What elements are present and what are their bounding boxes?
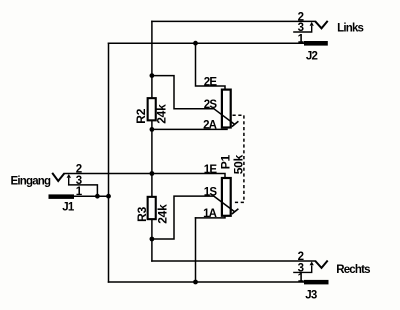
J2 tip contact V [315, 21, 327, 28]
P1 section1 wiper arrow [214, 196, 235, 211]
wire 1S branch [152, 196, 214, 239]
svg-text:2: 2 [298, 251, 304, 263]
wire top ground line [109, 42, 305, 44]
J3 switch arrow [293, 266, 312, 273]
J1 sleeve bar [49, 194, 75, 199]
J2 sleeve bar [304, 41, 328, 46]
J1 switch arrow [68, 178, 70, 185]
node R3/1S junction [150, 237, 155, 242]
connector J3 [293, 251, 370, 301]
P1 gang coupling dashed line [233, 115, 244, 202]
svg-text:J2: J2 [306, 50, 318, 62]
wire bottom ground line [109, 281, 305, 283]
J3 tip contact V [315, 261, 327, 268]
svg-text:24k: 24k [155, 104, 169, 124]
junction dots [95, 41, 198, 285]
wire J1 pin3 to ground [69, 185, 98, 196]
svg-text:2S: 2S [204, 99, 218, 111]
svg-text:R3: R3 [135, 206, 149, 221]
wire J1 pin1 [74, 195, 109, 197]
svg-text:3: 3 [76, 175, 82, 187]
potentiometer P1 section 2 [203, 76, 238, 131]
resistor R3 [135, 197, 170, 224]
J3 sleeve bar [304, 280, 329, 285]
node 2A junction [150, 127, 155, 132]
svg-text:1S: 1S [204, 186, 218, 198]
resistor R2 [134, 98, 169, 124]
svg-text:J1: J1 [62, 202, 75, 214]
svg-text:24k: 24k [156, 204, 170, 224]
node 2E ground junction [193, 41, 198, 46]
svg-text:2E: 2E [204, 76, 218, 88]
wire 2S branch [152, 76, 214, 109]
node J1 pin3 junction [95, 194, 100, 199]
svg-text:1E: 1E [204, 164, 218, 176]
svg-text:Links: Links [337, 22, 363, 34]
connector J2 [293, 12, 363, 63]
node 1E junction [150, 171, 155, 176]
wire 1A to ground [195, 218, 197, 282]
svg-text:3: 3 [298, 22, 304, 34]
J2 switch arrow [293, 26, 312, 32]
svg-text:J3: J3 [305, 289, 317, 301]
wire J3 pin2 line [152, 260, 315, 262]
wire 1E line from J1 pin2 [64, 174, 225, 178]
svg-text:2: 2 [76, 164, 82, 176]
wire ground vertical x=108.5 [108, 43, 110, 282]
svg-text:Eingang: Eingang [11, 175, 52, 187]
node 2S/J2 junction [150, 73, 155, 78]
connector J1 [11, 164, 83, 214]
wire 2A branch [152, 128, 227, 130]
node 1A ground junction [193, 280, 198, 285]
wire vertical bus x=152 [151, 21, 153, 261]
wire top net J2 pin2 [152, 20, 315, 22]
svg-text:R2: R2 [134, 108, 148, 123]
P1 section2 wiper arrow [214, 109, 235, 124]
potentiometer P1 section 1 [203, 115, 245, 220]
wire 2E branch [196, 43, 226, 90]
svg-text:1A: 1A [203, 208, 217, 220]
J1 tip contact V [52, 173, 64, 181]
node J1 pin1 junction [106, 194, 111, 199]
wire 1A branch [196, 216, 226, 218]
svg-text:Rechts: Rechts [336, 264, 370, 276]
svg-text:2A: 2A [203, 120, 217, 132]
